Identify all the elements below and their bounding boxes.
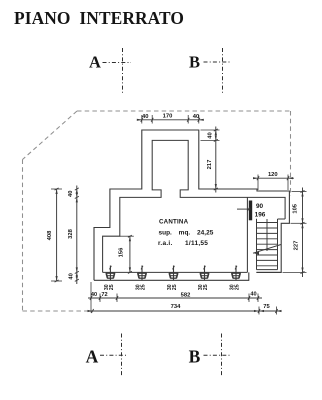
svg-text:40: 40 xyxy=(193,114,199,120)
dimension label 105 xyxy=(292,203,298,213)
svg-text:120: 120 xyxy=(268,172,278,178)
stair bottom outer edge xyxy=(256,271,281,273)
svg-text:40: 40 xyxy=(69,273,75,279)
svg-text:r.a.i. 1/11,55: r.a.i. 1/11,55 xyxy=(158,240,208,247)
svg-text:105: 105 xyxy=(292,203,298,213)
dimension right line xyxy=(283,188,307,278)
stair west rail xyxy=(256,219,258,270)
interior floor line xyxy=(103,271,248,273)
window W2 xyxy=(137,266,146,281)
section line B bottom horizontal xyxy=(204,354,232,356)
section line A bottom vertical xyxy=(121,334,123,377)
bottom outer wall xyxy=(94,279,249,281)
svg-text:B: B xyxy=(189,53,200,72)
dimension bay right line xyxy=(201,127,220,193)
section line A bottom horizontal xyxy=(100,354,128,356)
svg-text:156: 156 xyxy=(119,247,125,257)
svg-text:408: 408 xyxy=(47,230,53,240)
outer wall contour xyxy=(94,130,289,280)
window W5 size labels 30 25 xyxy=(229,284,240,290)
svg-text:40: 40 xyxy=(250,291,256,297)
dimension label 75 xyxy=(263,304,270,310)
lot boundary dashed right xyxy=(290,111,292,196)
svg-text:25: 25 xyxy=(172,284,178,290)
svg-text:25: 25 xyxy=(109,284,115,290)
door label 90 xyxy=(256,203,264,210)
door leaf filled xyxy=(249,201,252,221)
svg-text:196: 196 xyxy=(255,212,266,219)
window W2 size labels 30 25 xyxy=(135,284,146,290)
svg-text:40: 40 xyxy=(208,132,214,138)
room label sup mq xyxy=(159,230,214,237)
dimension label 217 xyxy=(207,160,213,170)
svg-text:40: 40 xyxy=(91,292,97,298)
dimension label 227 xyxy=(294,241,300,251)
dimension label 582 xyxy=(181,292,191,298)
dimension left inner line xyxy=(75,186,79,285)
stair walk line vertical xyxy=(266,219,268,251)
inner wall contour xyxy=(103,140,286,272)
dimension label 120 xyxy=(268,172,278,178)
bottom dimension line 2 xyxy=(88,307,282,315)
svg-text:734: 734 xyxy=(171,304,181,310)
dimension label 156 xyxy=(119,247,125,257)
svg-text:25: 25 xyxy=(235,284,241,290)
dimension label 40 top xyxy=(68,191,74,197)
svg-text:PIANO INTERRATO: PIANO INTERRATO xyxy=(14,8,184,28)
lot boundary dashed bottom xyxy=(23,310,93,312)
window W3 size labels 30 25 xyxy=(167,284,178,290)
svg-text:A: A xyxy=(89,53,101,72)
window W5 xyxy=(231,266,240,281)
door leader line xyxy=(237,207,251,211)
bottom dimension line 1 xyxy=(88,282,262,313)
dimension label 40 bay right xyxy=(208,132,214,138)
svg-text:CANTINA: CANTINA xyxy=(159,219,189,226)
dimension label 170 xyxy=(163,114,173,120)
svg-text:90: 90 xyxy=(256,203,264,210)
stair treads xyxy=(257,223,278,270)
stair landing bottom edge xyxy=(278,218,286,220)
svg-text:227: 227 xyxy=(294,241,300,251)
dimension 120 line xyxy=(253,175,294,191)
svg-text:328: 328 xyxy=(68,228,74,238)
svg-text:40: 40 xyxy=(142,114,148,120)
dimension 408 line xyxy=(51,188,62,282)
window W1 xyxy=(106,266,115,281)
svg-text:72: 72 xyxy=(101,292,107,298)
svg-text:40: 40 xyxy=(68,191,74,197)
section mark A top letter xyxy=(89,53,101,72)
door label 196 xyxy=(255,212,266,219)
section line B bottom vertical xyxy=(221,334,223,377)
svg-text:B: B xyxy=(189,346,201,366)
svg-text:sup. mq. 24,25: sup. mq. 24,25 xyxy=(159,230,214,237)
section mark B top letter xyxy=(189,53,200,72)
section line A top horizontal xyxy=(103,62,132,64)
svg-text:25: 25 xyxy=(141,284,147,290)
dimension label 734 xyxy=(171,304,181,310)
section mark A bottom letter xyxy=(86,346,99,366)
title PIANO INTERRATO xyxy=(14,8,184,28)
svg-text:217: 217 xyxy=(207,160,213,170)
room label rai xyxy=(158,240,208,247)
room right inner wall xyxy=(246,197,248,272)
lot boundary dashed top xyxy=(77,110,291,112)
dimension label 40 right xyxy=(193,114,199,120)
window W4 size labels 30 25 xyxy=(198,284,209,290)
bottom-right outer wall stub xyxy=(248,272,250,280)
section line A top vertical xyxy=(122,48,124,95)
dimension label 40 bl xyxy=(91,292,97,298)
dimension label 40 br xyxy=(250,291,256,297)
window W1 size labels 30 25 xyxy=(104,284,115,290)
stair walk line diagonal xyxy=(253,245,281,255)
section line B top horizontal xyxy=(204,61,232,63)
svg-text:A: A xyxy=(86,346,99,366)
lot boundary dashed left xyxy=(22,160,24,312)
svg-text:25: 25 xyxy=(203,284,209,290)
dimension label 72 xyxy=(101,292,107,298)
dimension bay top line xyxy=(137,115,204,124)
room label CANTINA xyxy=(159,219,189,226)
window W3 xyxy=(169,266,178,281)
dimension 156 line xyxy=(120,235,134,273)
lot boundary dashed diagonal xyxy=(23,111,78,160)
dimension label 40 left xyxy=(142,114,148,120)
section mark B bottom letter xyxy=(189,346,201,366)
dimension label 408 xyxy=(47,230,53,240)
dimension label 328 xyxy=(68,228,74,238)
svg-text:75: 75 xyxy=(263,304,270,310)
stair east rail xyxy=(277,219,279,270)
section line B top vertical xyxy=(222,48,224,95)
svg-text:582: 582 xyxy=(181,292,191,298)
dimension label 40 bottom xyxy=(69,273,75,279)
window W4 xyxy=(200,266,209,281)
svg-text:170: 170 xyxy=(163,114,173,120)
